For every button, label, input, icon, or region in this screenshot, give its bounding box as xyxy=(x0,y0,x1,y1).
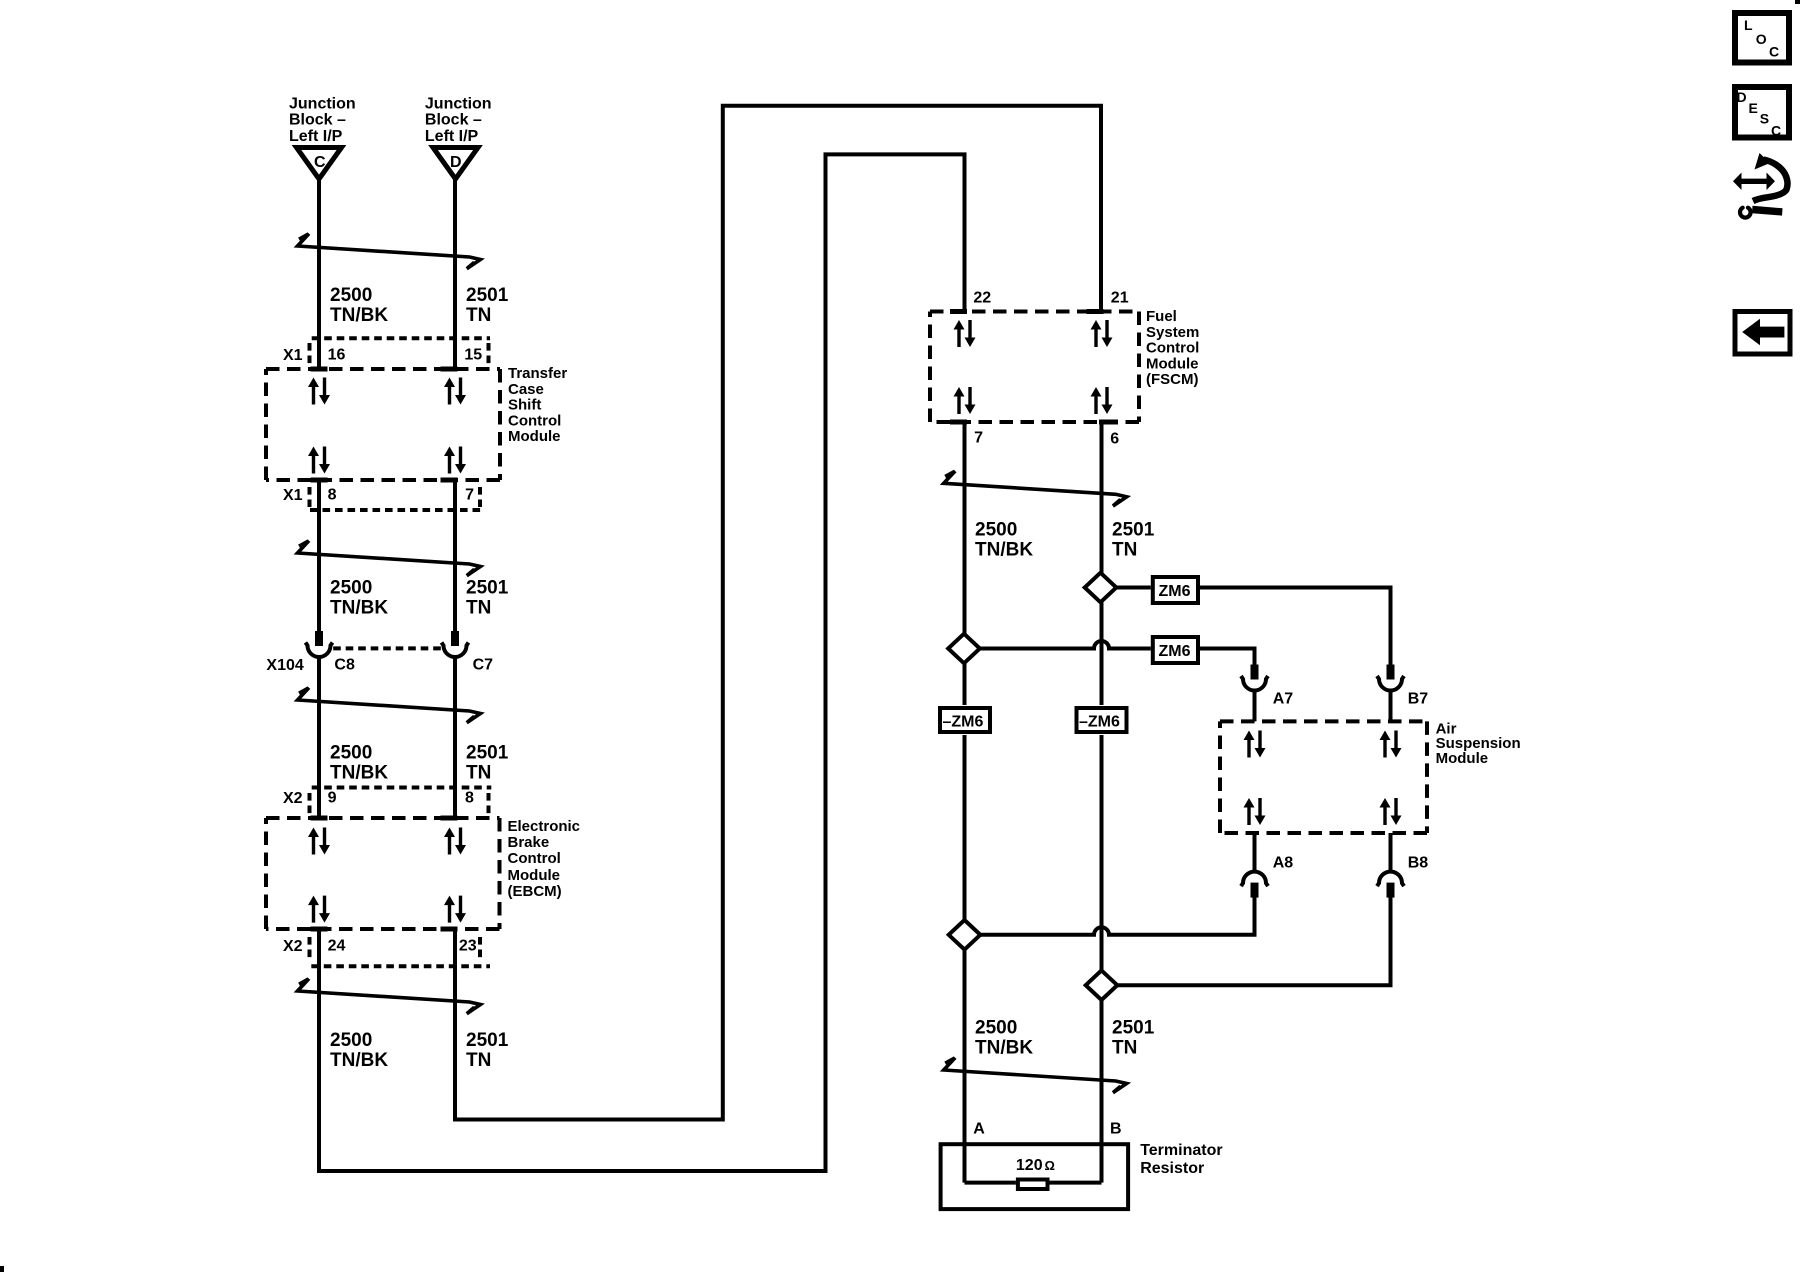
svg-text:TN: TN xyxy=(466,1050,491,1071)
connector X2 (pins 24/23) dotted outline xyxy=(310,937,491,966)
wire from splice to ZM6 (lower) with hop over 2501 xyxy=(980,641,1151,648)
junction block C triangle xyxy=(297,148,342,180)
pin 15 xyxy=(441,347,483,372)
svg-text:TN: TN xyxy=(466,763,491,784)
svg-text:(EBCM): (EBCM) xyxy=(508,883,562,900)
pin 7 xyxy=(441,478,475,504)
wire label 2500 TN/BK (right upper) xyxy=(975,520,1033,561)
transfer case shift control module box xyxy=(266,369,500,480)
arrows at pin B7 xyxy=(1380,731,1402,758)
arrows at pin 15 xyxy=(444,378,466,405)
svg-text:Left I/P: Left I/P xyxy=(289,128,343,145)
svg-text:Left I/P: Left I/P xyxy=(425,128,479,145)
svg-text:2500: 2500 xyxy=(330,578,372,599)
svg-text:ZM6: ZM6 xyxy=(1159,583,1191,600)
wire 2500 continues xyxy=(963,663,967,705)
junction block C label xyxy=(289,96,356,145)
svg-text:7: 7 xyxy=(974,430,983,447)
svg-text:L: L xyxy=(1744,17,1753,33)
ZM6 box (lower) xyxy=(1153,637,1198,663)
arrows at pin A7 xyxy=(1244,731,1266,758)
pin 22 xyxy=(950,290,991,315)
svg-text:2501: 2501 xyxy=(466,578,509,599)
svg-text:Fuel: Fuel xyxy=(1146,308,1177,325)
svg-text:B: B xyxy=(1110,1121,1122,1138)
svg-text:2500: 2500 xyxy=(330,1030,372,1051)
terminal B8 pigtail cup xyxy=(1377,855,1428,898)
pin 23 xyxy=(441,927,477,955)
pin 6 (FSCM) xyxy=(1099,420,1119,448)
splice band -ZM6 on 2500 wire xyxy=(940,708,990,732)
wire label 2501 TN (right upper) xyxy=(1112,520,1155,561)
pin 9 xyxy=(311,790,337,821)
svg-text:X1: X1 xyxy=(283,487,303,504)
wire 2500 TN/BK from X104 to X2-9 xyxy=(317,657,321,818)
twisted pair symbol fourth left xyxy=(298,979,481,1014)
splice band -ZM6 on 2501 wire xyxy=(1077,708,1127,732)
wire from splice to A8 pigtail with hop over 2501 xyxy=(980,897,1254,935)
svg-text:24: 24 xyxy=(328,938,346,955)
transfer case module label xyxy=(508,365,567,445)
svg-text:A: A xyxy=(973,1121,985,1138)
svg-text:TN/BK: TN/BK xyxy=(975,540,1033,561)
air suspension module box xyxy=(1220,721,1427,833)
svg-text:15: 15 xyxy=(464,347,482,364)
resistor element 120 ohm xyxy=(965,1157,1102,1189)
svg-text:Shift: Shift xyxy=(508,397,541,414)
wire label 2501 TN (top left) xyxy=(466,285,509,326)
svg-text:TN: TN xyxy=(1112,1038,1137,1059)
X104 terminal C8 xyxy=(306,631,355,674)
junction block D label xyxy=(425,96,492,145)
arrows at pin 16 xyxy=(308,378,330,405)
wire from air suspension module to A8 cup xyxy=(1253,833,1257,872)
terminal B7 pigtail cup xyxy=(1377,665,1428,708)
svg-text:C8: C8 xyxy=(334,657,355,674)
wire from ZM6 to A7 pigtail xyxy=(1198,649,1255,665)
wire 2500 from -ZM6 to splice (lower) xyxy=(963,735,967,921)
svg-text:2500: 2500 xyxy=(330,285,372,306)
wire 2501 TN from X104 to X2-8 xyxy=(453,657,457,818)
svg-text:–ZM6: –ZM6 xyxy=(943,714,984,731)
svg-text:22: 22 xyxy=(973,290,991,307)
pin 24 xyxy=(311,927,346,955)
svg-text:X2: X2 xyxy=(283,790,303,807)
terminal A7 pigtail cup xyxy=(1241,665,1293,708)
arrows at pin 7 (FSCM) xyxy=(954,387,976,414)
LOC icon box xyxy=(1735,13,1789,63)
pin 8 xyxy=(311,478,337,504)
svg-text:Control: Control xyxy=(1146,340,1199,357)
svg-text:2500: 2500 xyxy=(975,520,1017,541)
arrows at pin A8 xyxy=(1244,798,1266,825)
svg-text:Module: Module xyxy=(1146,355,1199,372)
junction block D triangle xyxy=(433,148,478,180)
twisted pair symbol third left xyxy=(298,688,481,723)
pin 7 (FSCM) xyxy=(950,420,983,447)
wire label 2500 TN/BK (third left) xyxy=(330,743,388,784)
svg-text:B7: B7 xyxy=(1408,691,1429,708)
svg-text:Module: Module xyxy=(1436,750,1489,767)
wire label 2500 TN/BK (top left) xyxy=(330,285,388,326)
svg-text:(FSCM): (FSCM) xyxy=(1146,371,1199,388)
svg-text:8: 8 xyxy=(328,487,337,504)
connector X2 (pins 9/8) dotted outline xyxy=(310,788,492,817)
connector X104 dotted line xyxy=(333,646,442,650)
svg-text:TN: TN xyxy=(1112,540,1137,561)
FSCM label xyxy=(1146,308,1199,388)
corner mark bottom left xyxy=(0,1266,4,1272)
wire 2501 continues through hop region xyxy=(1100,603,1104,706)
svg-text:Terminator: Terminator xyxy=(1140,1142,1222,1159)
svg-text:TN/BK: TN/BK xyxy=(330,763,388,784)
wire 2501 TN route from X2-23 to FSCM pin 21 xyxy=(455,106,1101,1120)
pin 8 (EBCM) xyxy=(441,790,475,821)
svg-text:X104: X104 xyxy=(266,657,303,674)
svg-text:Module: Module xyxy=(508,867,561,884)
terminator resistor label xyxy=(1140,1142,1222,1177)
wire label 2501 TN (second left) xyxy=(466,578,509,619)
wire 2501 TN from X1-7 to X104-C7 xyxy=(453,480,457,631)
svg-text:TN/BK: TN/BK xyxy=(330,598,388,619)
splice diamond on 2501 wire (lower) xyxy=(1086,970,1118,1000)
svg-text:A8: A8 xyxy=(1273,855,1294,872)
svg-text:2501: 2501 xyxy=(466,285,509,306)
svg-text:TN/BK: TN/BK xyxy=(975,1038,1033,1059)
svg-text:Module: Module xyxy=(508,428,561,445)
svg-text:Transfer: Transfer xyxy=(508,365,567,382)
svg-text:System: System xyxy=(1146,324,1199,341)
wire 2501 from splice to terminator B xyxy=(1100,1000,1104,1183)
wire 2501 from -ZM6 through hop to splice (lower) xyxy=(1100,735,1104,971)
svg-text:D: D xyxy=(450,154,462,171)
wire from splice to ZM6 (upper) xyxy=(1116,586,1151,590)
svg-text:2501: 2501 xyxy=(466,1030,509,1051)
wire 2501 TN from junction D to connector X1-15 xyxy=(453,177,457,369)
wire 2500 from splice to terminator A xyxy=(963,950,967,1183)
svg-text:120: 120 xyxy=(1016,1157,1043,1174)
svg-text:S: S xyxy=(1760,110,1769,126)
twisted pair symbol right upper xyxy=(944,471,1127,506)
arrows at pin 8 xyxy=(444,828,466,855)
svg-text:C: C xyxy=(1769,44,1779,60)
arrows at pin 7 xyxy=(444,447,466,474)
svg-text:2500: 2500 xyxy=(330,743,372,764)
swap-tools icon xyxy=(1733,153,1787,218)
twisted pair symbol top left xyxy=(298,234,481,269)
svg-text:TN/BK: TN/BK xyxy=(330,305,388,326)
ZM6 box (upper) xyxy=(1153,577,1198,603)
svg-text:7: 7 xyxy=(465,487,474,504)
wire from air suspension module to B8 cup xyxy=(1389,833,1393,872)
terminator resistor box xyxy=(941,1144,1129,1209)
arrows at pin 21 xyxy=(1091,320,1113,347)
wire 2500 TN/BK route from X2-24 to FSCM pin 22 xyxy=(319,154,965,1171)
svg-text:2500: 2500 xyxy=(975,1018,1017,1039)
twisted pair symbol second left xyxy=(298,541,481,576)
svg-text:TN: TN xyxy=(466,598,491,619)
wire B inside terminator xyxy=(1100,1142,1104,1183)
pin 21 xyxy=(1087,290,1129,315)
svg-text:2501: 2501 xyxy=(1112,1018,1155,1039)
arrows at pin 9 xyxy=(308,828,330,855)
wire label 2500 TN/BK (second left) xyxy=(330,578,388,619)
connector X1 (pins 8/7) dotted outline xyxy=(310,487,483,510)
svg-text:16: 16 xyxy=(328,347,346,364)
svg-text:23: 23 xyxy=(459,938,477,955)
svg-text:C: C xyxy=(314,154,326,171)
wire label 2501 TN (third left) xyxy=(466,743,509,784)
wire from splice to B8 pigtail xyxy=(1117,897,1390,985)
svg-text:Block –: Block – xyxy=(289,112,346,129)
svg-text:A7: A7 xyxy=(1273,691,1294,708)
pin 16 xyxy=(311,347,346,372)
wire 2501 TN from FSCM-6 to splice xyxy=(1100,422,1104,573)
back arrow icon box xyxy=(1735,312,1790,355)
electronic brake control module box xyxy=(266,818,500,929)
svg-text:ZM6: ZM6 xyxy=(1159,643,1191,660)
svg-text:D: D xyxy=(1737,89,1747,105)
arrows at pin 6 (FSCM) xyxy=(1091,387,1113,414)
svg-text:B8: B8 xyxy=(1408,855,1429,872)
svg-text:O: O xyxy=(1756,31,1767,47)
wire 2500 TN/BK from FSCM-7 to splice xyxy=(963,422,967,634)
fuel system control module box xyxy=(930,312,1139,423)
DESC icon box xyxy=(1735,87,1789,139)
svg-text:Case: Case xyxy=(508,381,544,398)
svg-text:E: E xyxy=(1749,100,1758,116)
wire from B7 cup to air suspension module xyxy=(1389,691,1393,722)
splice diamond on 2500 wire (upper) xyxy=(948,634,980,664)
wire 2500 TN/BK from junction C to connector X1-16 xyxy=(317,177,321,369)
svg-text:C7: C7 xyxy=(473,657,494,674)
connector X1 (pins 16/15) dotted outline xyxy=(310,338,491,366)
svg-text:Block –: Block – xyxy=(425,112,482,129)
wire 2500 TN/BK from X1-8 to X104-C8 xyxy=(317,480,321,631)
X104 terminal C7 xyxy=(442,631,494,674)
corner mark top right xyxy=(1795,0,1800,4)
svg-text:C: C xyxy=(1771,123,1781,139)
svg-text:Junction: Junction xyxy=(289,96,356,113)
twisted pair symbol right lower xyxy=(944,1058,1127,1093)
EBCM label xyxy=(508,818,581,900)
wire label 2501 TN (right lower) xyxy=(1112,1018,1155,1059)
svg-text:Junction: Junction xyxy=(425,96,492,113)
wire label 2500 TN/BK (fourth left) xyxy=(330,1030,388,1071)
wire label 2501 TN (fourth left) xyxy=(466,1030,509,1071)
svg-text:Brake: Brake xyxy=(508,834,550,851)
svg-text:6: 6 xyxy=(1110,431,1119,448)
svg-text:2501: 2501 xyxy=(466,743,509,764)
arrows at pin 24 xyxy=(308,896,330,923)
air suspension module label xyxy=(1436,720,1521,766)
svg-text:21: 21 xyxy=(1111,290,1129,307)
svg-text:Electronic: Electronic xyxy=(508,818,581,835)
splice diamond on 2500 wire (lower) xyxy=(949,920,981,950)
wire from A7 cup to air suspension module xyxy=(1253,691,1257,722)
svg-text:Control: Control xyxy=(508,412,561,429)
svg-text:TN/BK: TN/BK xyxy=(330,1050,388,1071)
wire label 2500 TN/BK (right lower) xyxy=(975,1018,1033,1059)
svg-text:TN: TN xyxy=(466,305,491,326)
wire A inside terminator xyxy=(963,1142,967,1183)
svg-text:Resistor: Resistor xyxy=(1140,1160,1204,1177)
arrows at pin 8 xyxy=(308,447,330,474)
svg-text:Ω: Ω xyxy=(1045,1158,1055,1173)
svg-text:X2: X2 xyxy=(283,938,303,955)
terminal A8 pigtail cup xyxy=(1241,855,1293,898)
arrows at pin B8 xyxy=(1380,798,1402,825)
svg-text:8: 8 xyxy=(465,790,474,807)
arrows at pin 22 xyxy=(954,320,976,347)
svg-text:Control: Control xyxy=(508,850,561,867)
svg-text:X1: X1 xyxy=(283,347,303,364)
arrows at pin 23 xyxy=(444,896,466,923)
svg-text:2501: 2501 xyxy=(1112,520,1155,541)
svg-text:9: 9 xyxy=(328,790,337,807)
svg-text:–ZM6: –ZM6 xyxy=(1079,714,1120,731)
wire from ZM6 to B7 pigtail xyxy=(1200,588,1391,665)
splice diamond on 2501 wire (upper) xyxy=(1085,573,1117,603)
